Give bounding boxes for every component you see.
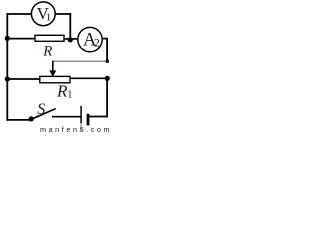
wire V1 to top-right corner bbox=[55, 13, 71, 15]
junction dot left at R row bbox=[5, 36, 10, 41]
svg-text:2: 2 bbox=[94, 35, 100, 49]
wire R1 row left bbox=[7, 78, 40, 80]
voltmeter V1 bbox=[31, 2, 55, 26]
wire battery left horizontal bbox=[52, 116, 81, 118]
wire wiper horizontal gray bbox=[53, 60, 106, 62]
junction dot right at R1 row bbox=[105, 76, 110, 81]
svg-text:R: R bbox=[56, 82, 68, 101]
wire R1 row right bbox=[70, 77, 107, 79]
rheostat wiper arrow bbox=[49, 61, 56, 77]
junction dot switch contact bbox=[29, 116, 34, 121]
svg-text:manfen5.com: manfen5.com bbox=[40, 125, 112, 134]
battery cell bbox=[81, 106, 89, 126]
wire bottom right horizontal bbox=[89, 116, 108, 118]
wire top-left horizontal bbox=[7, 13, 32, 15]
svg-text:1: 1 bbox=[67, 90, 72, 101]
junction dot node between R and A2 bbox=[68, 37, 73, 42]
wire A2 right horizontal bbox=[102, 38, 108, 40]
label R1 bbox=[56, 82, 73, 101]
wire R to junction to A2 bbox=[64, 38, 78, 40]
ammeter A2 bbox=[78, 27, 102, 51]
wire right vertical upper bbox=[106, 39, 108, 61]
wire R row left bbox=[7, 38, 35, 40]
wire right vertical lower bbox=[106, 78, 108, 117]
wire bottom left horizontal bbox=[6, 119, 31, 121]
svg-text:1: 1 bbox=[46, 12, 52, 24]
rheostat R1 body bbox=[40, 76, 70, 82]
junction dot left at R1 row bbox=[5, 76, 10, 81]
svg-text:S: S bbox=[37, 101, 45, 118]
svg-text:R: R bbox=[42, 43, 52, 59]
wire left vertical bbox=[6, 13, 8, 121]
resistor R bbox=[35, 35, 64, 41]
terminal blob end of vertical bbox=[106, 60, 109, 63]
switch S blade bbox=[31, 109, 55, 120]
wire top-right vertical down bbox=[69, 13, 71, 39]
dashed mark below battery plate bbox=[80, 124, 82, 131]
